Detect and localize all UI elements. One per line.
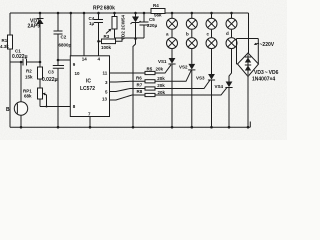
wire pin5 row — [110, 89, 146, 92]
wire top bus — [10, 12, 249, 14]
svg-text:d: d — [226, 31, 229, 36]
svg-text:4.3k: 4.3k — [0, 44, 9, 49]
svg-text:IC: IC — [86, 79, 91, 85]
lamp H6 — [186, 38, 197, 49]
svg-text:20k: 20k — [157, 83, 165, 88]
svg-text:20k: 20k — [156, 67, 164, 72]
svg-text:100k: 100k — [101, 45, 112, 50]
capacitor C1 — [12, 49, 28, 66]
svg-text:VD3 ~ VD6: VD3 ~ VD6 — [254, 70, 279, 76]
svg-text:B: B — [6, 107, 10, 113]
wire left rail — [9, 13, 11, 127]
wire gate VS4 — [155, 87, 227, 95]
lamp H5 — [167, 38, 178, 49]
resistor R4 — [151, 3, 165, 18]
svg-text:11: 11 — [103, 71, 108, 76]
resistor R2 — [25, 62, 43, 88]
wire IC pin7 — [89, 117, 91, 128]
svg-text:C3: C3 — [48, 70, 54, 75]
lamp H1 — [167, 18, 178, 29]
lamp column b wire — [191, 13, 193, 127]
resistor R7 — [137, 83, 166, 91]
svg-text:10: 10 — [75, 71, 81, 76]
wire zener node — [115, 37, 145, 39]
wire bottom bus — [10, 122, 250, 128]
bridge rectifier VD3-VD6 — [238, 53, 279, 82]
svg-text:R5: R5 — [147, 67, 153, 72]
svg-text:~220V: ~220V — [260, 42, 275, 48]
wire bridge DC minus — [247, 77, 249, 128]
wire AC right drop — [248, 13, 250, 53]
svg-text:R7: R7 — [137, 83, 143, 88]
svg-text:LC572: LC572 — [80, 86, 95, 92]
wire gate VS1 — [155, 65, 171, 73]
resistor R8 — [137, 89, 166, 96]
AC source ~220V — [254, 42, 275, 48]
lamp H4 — [226, 18, 237, 29]
lamp column d wire — [229, 13, 232, 127]
svg-text:RP2 680k: RP2 680k — [93, 6, 115, 12]
svg-text:0.022μ: 0.022μ — [12, 54, 28, 60]
svg-text:220μ: 220μ — [147, 23, 158, 28]
svg-text:2AP9: 2AP9 — [28, 24, 41, 30]
wire IC pin14 — [83, 13, 85, 56]
wire IC pin9 — [70, 13, 72, 56]
thyristor VS3 — [196, 74, 215, 81]
svg-text:R4: R4 — [153, 3, 159, 8]
wire pin11 row — [110, 72, 146, 74]
svg-text:0.022μ: 0.022μ — [42, 77, 58, 83]
capacitor C5 — [140, 12, 158, 38]
zener diode VD2 — [121, 12, 141, 40]
op IC U1 LC572 — [70, 56, 109, 117]
svg-text:R3: R3 — [104, 34, 110, 39]
svg-text:20k: 20k — [158, 90, 166, 95]
svg-text:VS2: VS2 — [179, 65, 188, 70]
wire zener ground — [133, 39, 136, 128]
svg-text:R8: R8 — [137, 89, 143, 94]
lamp column a wire — [171, 13, 173, 127]
svg-text:14: 14 — [82, 57, 88, 62]
wire IC pin4 — [98, 41, 100, 56]
svg-text:C5: C5 — [149, 17, 155, 22]
lamp H7 — [206, 38, 217, 49]
svg-text:R1: R1 — [2, 38, 8, 43]
svg-text:56k: 56k — [154, 13, 162, 18]
microphone B — [6, 62, 28, 129]
potentiometer RP1 — [23, 88, 47, 107]
svg-text:C2: C2 — [61, 35, 67, 40]
capacitor C4 — [89, 12, 104, 42]
thyristor VS1 — [158, 58, 176, 64]
wire gate VS2 — [155, 70, 191, 81]
svg-text:68k: 68k — [24, 94, 32, 99]
svg-text:VS3: VS3 — [196, 76, 205, 81]
resistor R6 — [136, 75, 165, 83]
resistor R5 — [145, 67, 164, 75]
diode VD1 — [28, 12, 44, 64]
wire IC pin8 — [40, 106, 70, 108]
thyristor VS2 — [179, 64, 195, 70]
capacitor C3 — [42, 60, 70, 83]
thyristor VS4 — [215, 82, 233, 90]
wire pin13 row — [110, 95, 146, 100]
svg-text:20k: 20k — [157, 76, 165, 81]
lamp H3 — [206, 18, 217, 29]
svg-text:15k: 15k — [25, 75, 33, 80]
wire gate VS3 — [155, 80, 210, 89]
svg-text:R6: R6 — [136, 75, 142, 80]
svg-text:1μ: 1μ — [89, 21, 95, 26]
lamp column c wire — [211, 13, 213, 127]
wire C2 ground — [57, 68, 59, 127]
lamp H8 — [226, 38, 237, 49]
svg-text:b: b — [186, 32, 189, 37]
wire signal node — [10, 61, 40, 63]
svg-text:VS1: VS1 — [158, 59, 167, 64]
capacitor C2 — [54, 12, 72, 66]
resistor R3 — [97, 34, 122, 50]
svg-text:13: 13 — [102, 97, 108, 102]
resistor R1 — [0, 35, 13, 49]
wire pin3 row — [110, 80, 146, 83]
svg-text:6800p: 6800p — [59, 43, 72, 48]
svg-text:R2: R2 — [26, 69, 32, 74]
svg-text:VD2 2CW54: VD2 2CW54 — [121, 14, 126, 40]
wire AC link — [237, 39, 259, 65]
lamp H2 — [186, 18, 197, 29]
svg-text:1N4007×4: 1N4007×4 — [252, 76, 275, 82]
svg-text:C1: C1 — [15, 49, 21, 54]
svg-text:VS4: VS4 — [215, 84, 224, 89]
potentiometer RP2 — [93, 6, 117, 39]
